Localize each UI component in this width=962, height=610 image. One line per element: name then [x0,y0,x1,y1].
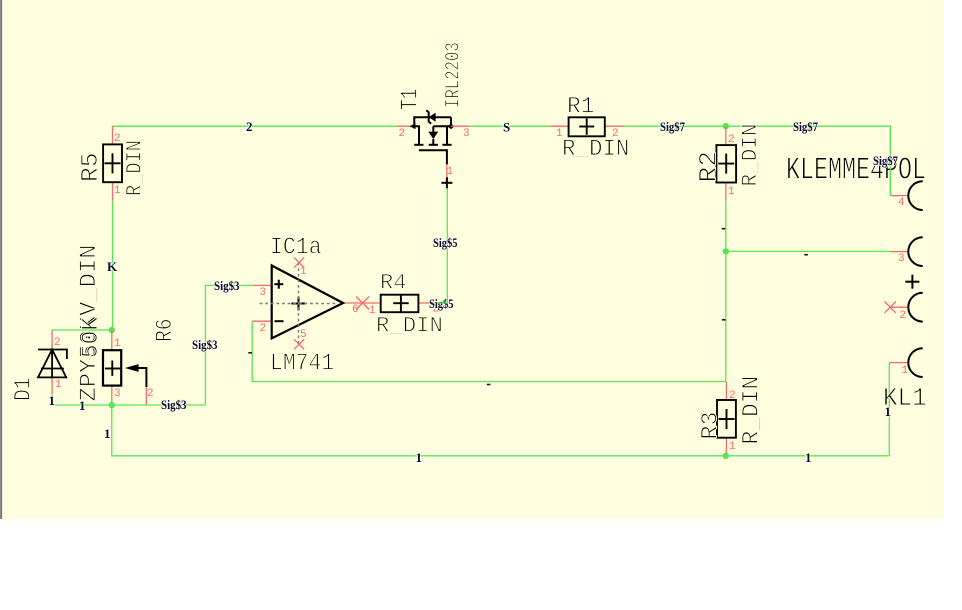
origin cross of connector [905,281,919,283]
gate arrow [410,123,416,129]
net label - on connector pin3 wire [804,254,808,256]
pin 2 stub [252,320,272,322]
wire: net 1 riser to KL1 pin 1 [888,363,890,456]
pin X at output node [356,297,369,310]
resistor R3 [698,376,765,456]
svg-text:Sig$7: Sig$7 [873,153,898,168]
svg-text:2: 2 [260,323,267,335]
wire: net Sig$7 vertical overlay at connector [889,126,891,195]
svg-text:1: 1 [805,450,812,465]
connection cross at pin 1 [441,182,452,184]
wire: net S, T1 drain to R1 [469,125,550,127]
wire: junction to connector pin 3 [726,250,891,252]
svg-text:2: 2 [147,388,154,400]
dashed crosshair [260,303,336,305]
svg-text:Sig$7: Sig$7 [660,119,685,134]
drain junction diamond [448,124,455,130]
resistor R1 [550,93,629,162]
junction dot at R2 top [723,123,729,129]
svg-text:R5: R5 [78,153,105,183]
zener triangle on top bar [429,113,436,122]
svg-text:R3: R3 [698,412,724,440]
svg-text:3: 3 [463,128,470,140]
wire: feedback net from op-amp pin 2 [252,321,726,381]
pin 1 stub [889,362,907,364]
svg-text:R_DIN: R_DIN [123,140,148,196]
svg-text:1: 1 [79,398,86,413]
connector KL1 KLEMME4POL [786,154,927,413]
resistor R4 [363,271,443,339]
zener diode D1 [11,245,106,402]
pin 2 arc [908,293,922,322]
wire: top bus net 2, R5 to T1 gate [113,125,398,127]
svg-text:KLEMME4POL: KLEMME4POL [786,154,926,189]
svg-text:S: S [503,120,510,135]
transistor T1 IRL2203 [397,42,470,188]
wire: D1 cathode to junction [52,329,112,331]
svg-text:2: 2 [399,128,406,140]
wire: R2 down to R3 [725,201,727,382]
wire: net K, R5 to D1/R6 junction [112,201,114,331]
source stub pin 1 [446,164,448,182]
svg-text:3: 3 [260,287,267,299]
net label - on feedback wire middle [487,384,491,386]
svg-text:1: 1 [49,393,56,408]
svg-text:1: 1 [728,186,735,198]
junction dot at connector pin3 branch [723,248,729,254]
triangle body [272,266,343,339]
svg-text:2: 2 [246,119,253,134]
svg-text:2: 2 [900,310,907,322]
top bar with zener [414,110,451,164]
svg-text:Sig$3: Sig$3 [192,337,218,352]
svg-text:5: 5 [300,329,307,341]
svg-text:IC1a: IC1a [270,235,322,262]
svg-text:6: 6 [352,304,359,316]
plus input mark [274,283,283,285]
junction dot at R6 pin1 / D1 top [109,327,115,333]
svg-text:R4: R4 [380,271,407,296]
pin 3 stub [890,251,907,253]
svg-text:1: 1 [104,426,111,441]
svg-text:R1: R1 [567,93,595,120]
unconnected X at pin 2 [885,302,896,313]
svg-text:D1: D1 [11,377,37,401]
svg-text:1: 1 [729,441,736,453]
pin 4 stub [890,195,907,197]
pin 6 output stub [343,302,363,304]
resistor R5 [78,126,148,200]
potentiometer R6 [103,318,178,405]
svg-text:R_DIN: R_DIN [562,136,629,163]
body diode triangle [428,132,438,140]
svg-text:50K: 50K [78,316,105,358]
svg-text:Sig$3: Sig$3 [214,278,240,293]
svg-text:3: 3 [898,253,905,265]
svg-text:R_DIN: R_DIN [376,314,443,339]
svg-text:1: 1 [114,185,121,197]
svg-text:1: 1 [369,305,376,317]
svg-text:1: 1 [55,379,62,391]
svg-text:R_DIN: R_DIN [739,376,765,445]
svg-text:1: 1 [902,365,909,377]
pin 2 stub [890,306,907,308]
pin 3 stub [253,284,272,286]
svg-text:R2: R2 [695,151,724,183]
unconnected pin X at pin 5 [294,339,304,349]
wire: net Sig$7, R1 to corner and down to connector pin 4 [624,126,890,195]
unconnected pin X at pin 1 [294,258,304,268]
gate stub pin 2 [397,125,411,127]
svg-text:T1: T1 [398,89,425,111]
svg-text:K: K [107,259,118,274]
svg-text:Sig$3: Sig$3 [161,397,187,412]
drain stub pin 3 [451,125,469,127]
svg-text:1: 1 [416,450,423,465]
net label - on R2-R3 wire lower [722,319,726,321]
svg-text:IRL2203: IRL2203 [443,42,466,108]
svg-text:2: 2 [728,134,735,146]
wire: net 1, left vertical to bottom bus [112,405,890,456]
svg-text:R_DIN: R_DIN [738,124,763,187]
svg-text:1: 1 [300,266,307,278]
center origin cross [292,303,306,305]
svg-text:Sig$7: Sig$7 [793,119,818,134]
wire: net Sig$5 from R4 up to T1 source [437,189,448,304]
op-amp IC1a LM741 [252,235,369,378]
resistor R2 [695,124,764,201]
svg-text:LM741: LM741 [270,350,334,377]
pin 1 arc [908,348,922,377]
wire: net 1, D1 anode along bottom to Sig$3 riser [52,394,205,405]
svg-text:2: 2 [54,337,61,349]
pin 3 arc [908,237,922,266]
pin 4 arc [908,181,922,210]
svg-text:KL1: KL1 [883,383,927,413]
svg-text:Sig$5: Sig$5 [433,235,458,250]
svg-text:1: 1 [447,166,454,178]
wiper arrow of R6 [125,364,139,372]
net label - on feedback wire left [248,352,252,354]
wire: net Sig$3 riser to op-amp input [205,285,253,405]
svg-text:3: 3 [114,388,121,400]
svg-text:R6: R6 [152,318,178,342]
junction dot at R6 pin3 [109,402,115,408]
svg-text:4: 4 [898,197,905,209]
minus input mark [275,320,284,322]
svg-text:2: 2 [729,390,736,402]
svg-text:2: 2 [114,133,121,145]
junction dot at R3 bottom on bus [723,453,729,459]
net label - on R2-R3 wire upper [722,228,726,230]
svg-text:1: 1 [114,338,121,350]
